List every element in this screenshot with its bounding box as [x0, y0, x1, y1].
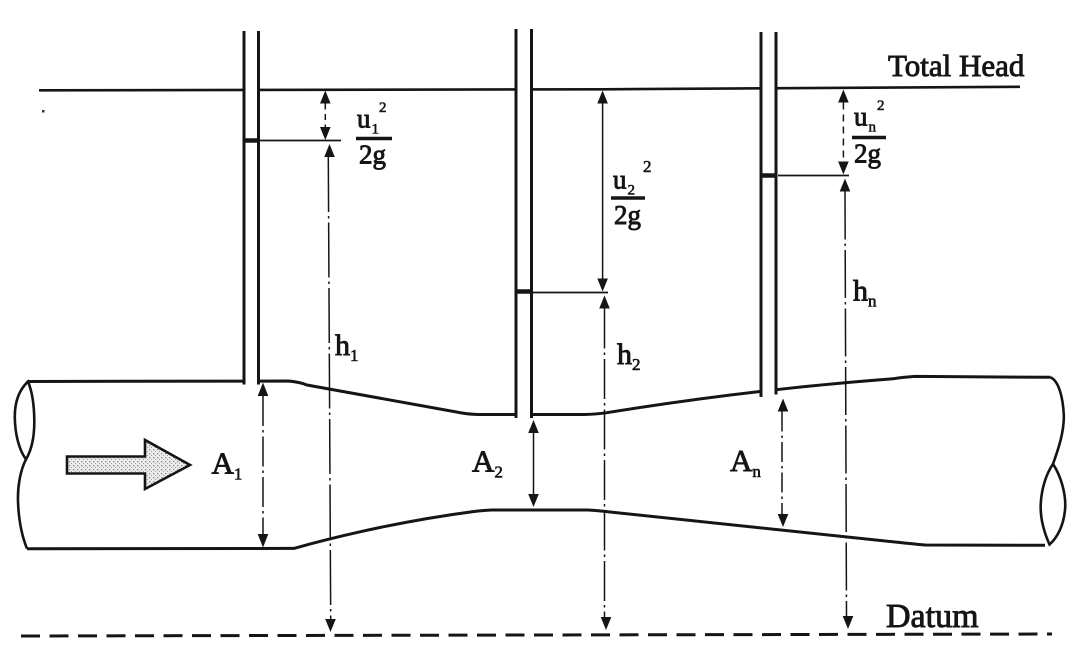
svg-text:A2: A2	[472, 444, 503, 482]
un velocity head arrow	[838, 90, 849, 175]
svg-text:hn: hn	[853, 275, 877, 311]
tube 2 water level tick	[518, 289, 531, 294]
label An	[730, 443, 761, 481]
A2 throat arrow	[528, 420, 539, 507]
label un^2/2g	[852, 98, 886, 169]
pipe outline	[27, 376, 1051, 548]
label Total Head	[888, 48, 1025, 83]
h2 dimension arrow	[599, 296, 611, 631]
label h2	[617, 338, 641, 374]
label u2^2/2g	[611, 157, 652, 230]
label u1^2/2g	[356, 100, 392, 170]
tube n water level tick	[763, 173, 775, 178]
h1 dimension arrow	[324, 144, 336, 632]
svg-text:u: u	[854, 102, 868, 132]
svg-text:2g: 2g	[614, 200, 641, 230]
svg-text:2: 2	[877, 98, 885, 114]
tube 1 water level tick	[246, 138, 258, 143]
label hn	[853, 275, 877, 311]
hn dimension arrow	[840, 179, 854, 630]
label A1	[212, 446, 243, 484]
u2 velocity head arrow	[597, 91, 608, 292]
label h1	[335, 329, 359, 365]
label Datum	[886, 598, 979, 635]
svg-text:Total Head: Total Head	[888, 48, 1025, 83]
svg-text:2g: 2g	[359, 140, 386, 170]
datum line	[21, 634, 1052, 636]
total head line	[39, 87, 1020, 91]
svg-text:1: 1	[372, 122, 380, 138]
svg-text:Datum: Datum	[886, 598, 979, 635]
svg-text:2g: 2g	[854, 139, 881, 169]
tube 2 water level extension line	[533, 292, 608, 294]
svg-text:u: u	[357, 104, 371, 134]
scan speck	[42, 110, 45, 113]
svg-text:2: 2	[628, 183, 636, 199]
A1 diameter arrow	[258, 383, 269, 548]
svg-text:h1: h1	[335, 329, 359, 365]
svg-text:h2: h2	[617, 338, 641, 374]
piezometer tube 1	[244, 28, 259, 385]
tube 1 water level extension line	[260, 140, 341, 142]
An diameter arrow	[778, 399, 789, 528]
pipe left end cut	[15, 382, 35, 549]
piezometer tube n	[761, 29, 776, 397]
svg-text:2: 2	[379, 100, 387, 116]
piezometer tube 2	[516, 26, 532, 418]
pipe right end cut	[1041, 377, 1066, 544]
svg-text:An: An	[730, 443, 761, 481]
svg-text:A1: A1	[212, 446, 243, 484]
svg-text:2: 2	[643, 157, 652, 176]
flow arrow	[67, 440, 190, 489]
tube n water level extension line	[778, 175, 849, 177]
svg-text:n: n	[869, 120, 877, 136]
svg-text:u: u	[613, 165, 627, 195]
label A2	[472, 444, 503, 482]
u1 velocity head arrow	[320, 91, 331, 141]
